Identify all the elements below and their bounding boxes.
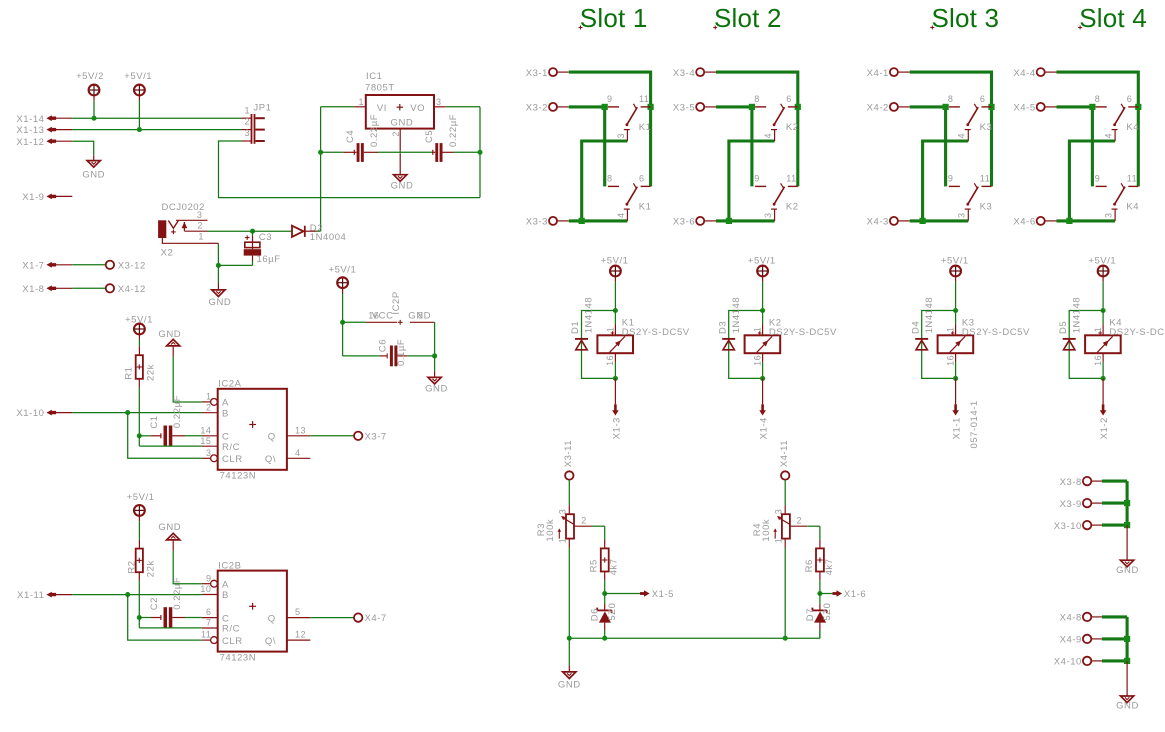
svg-text:6: 6 <box>206 607 212 617</box>
wire side bus <box>1126 481 1129 525</box>
svg-text:R/C: R/C <box>222 442 240 453</box>
svg-text:1: 1 <box>358 97 364 107</box>
svg-text:Slot 3: Slot 3 <box>932 3 1000 33</box>
diode D4 1N4148 <box>915 338 928 340</box>
ground GND (IC2B) symbol <box>167 533 180 540</box>
svg-text:+5V/1: +5V/1 <box>124 71 152 82</box>
svg-text:4: 4 <box>957 133 967 139</box>
zener diode D6 5Z0 <box>604 594 606 605</box>
svg-text:C1: C1 <box>149 415 160 428</box>
svg-text:X1-12: X1-12 <box>16 137 44 148</box>
svg-text:6: 6 <box>786 94 792 104</box>
node X3-12 <box>106 261 114 269</box>
svg-text:GND: GND <box>391 180 414 191</box>
relay contact K3 <box>949 106 960 108</box>
svg-text:X4-9: X4-9 <box>1060 635 1082 646</box>
svg-text:GND: GND <box>209 297 232 308</box>
relay contact K4 <box>1096 185 1107 187</box>
svg-text:X3-11: X3-11 <box>563 440 574 467</box>
capacitor C6 0.1uF <box>380 355 387 357</box>
svg-text:X1-10: X1-10 <box>16 408 44 419</box>
svg-text:C4: C4 <box>345 130 356 143</box>
junction C6/GND <box>432 353 437 358</box>
ground GND (side) <box>1121 560 1134 567</box>
svg-text:VI: VI <box>377 103 387 114</box>
svg-text:3: 3 <box>436 97 442 107</box>
svg-text:3: 3 <box>1104 212 1114 218</box>
diode D2 1N4004 <box>292 226 303 237</box>
wire VCC down to C6 <box>342 322 344 356</box>
wire R3 pin1 down <box>568 539 570 548</box>
svg-text:X3-9: X3-9 <box>1060 499 1082 510</box>
junction <box>1124 636 1130 642</box>
svg-text:X1-6: X1-6 <box>844 589 866 600</box>
IC2B pin Q stub <box>287 617 310 619</box>
svg-text:9: 9 <box>1095 174 1101 184</box>
wire C4 to C5 <box>364 151 378 153</box>
svg-text:Slot 4: Slot 4 <box>1079 3 1147 33</box>
junction R2/C2/RC <box>137 615 142 620</box>
IC2P pin 8 GND <box>410 321 435 323</box>
wire X1-7 to X3-12 <box>72 264 105 266</box>
svg-text:8: 8 <box>418 311 424 321</box>
junction X1-13 / +5V/1 <box>137 127 142 132</box>
junction bus/R4 <box>783 636 788 641</box>
svg-text:14: 14 <box>200 425 211 435</box>
IC2P pin 16 VCC <box>343 321 367 323</box>
relay contact K4 <box>1096 106 1107 108</box>
svg-text:X4-2: X4-2 <box>867 103 889 114</box>
svg-text:B: B <box>222 590 229 601</box>
wire X4-10 <box>1102 659 1127 662</box>
junction <box>943 104 949 110</box>
node X4-12 <box>106 284 114 292</box>
svg-text:0.22µF: 0.22µF <box>172 395 183 428</box>
junction <box>1066 218 1072 224</box>
IC2A pin CLR bubble <box>211 455 218 462</box>
wire X4-8 <box>1102 615 1127 618</box>
svg-text:K2: K2 <box>786 202 799 213</box>
svg-text:3: 3 <box>616 133 626 139</box>
svg-text:+5V/1: +5V/1 <box>328 264 356 275</box>
junction <box>795 104 801 110</box>
node X4-7 <box>354 613 362 621</box>
svg-text:K1: K1 <box>639 122 652 133</box>
ground GND (IC2A) symbol <box>167 339 180 346</box>
wire RC link (IC2B) <box>138 618 140 628</box>
svg-text:DS2Y-S-DC5V: DS2Y-S-DC5V <box>962 327 1030 338</box>
svg-text:GND: GND <box>1116 701 1139 712</box>
junction <box>1124 500 1130 506</box>
wire +5V down <box>762 276 764 282</box>
svg-text:X1-3: X1-3 <box>611 417 622 439</box>
svg-text:GND: GND <box>158 522 181 533</box>
svg-text:+5V/1: +5V/1 <box>127 492 155 503</box>
capacitor C5 <box>432 150 434 155</box>
svg-text:4k7: 4k7 <box>824 558 835 575</box>
svg-text:15: 15 <box>200 436 211 446</box>
junction <box>726 218 732 224</box>
wire side bus <box>1126 617 1129 661</box>
svg-text:IC1: IC1 <box>366 71 382 82</box>
IC2B pin CLR bubble <box>211 637 218 644</box>
supply +5V/1 symbol (K1) <box>610 266 621 277</box>
relay coil K2 pin 16 <box>762 353 764 362</box>
junction <box>1089 104 1095 110</box>
capacitor C2 0.22uF <box>139 617 150 619</box>
svg-text:1: 1 <box>244 105 250 115</box>
wire IC1 pin 2 to GND <box>399 129 401 151</box>
svg-text:2: 2 <box>581 516 587 526</box>
svg-text:22k: 22k <box>146 364 157 381</box>
wire contact out top <box>582 141 628 221</box>
wire +5V down <box>1102 276 1104 282</box>
diode D3 1N4148 <box>722 338 735 340</box>
svg-text:CLR: CLR <box>222 636 243 647</box>
svg-text:1N4148: 1N4148 <box>1071 297 1082 334</box>
node X3-7 <box>354 432 362 440</box>
relay coil K2 box <box>745 335 781 353</box>
net flag X1-3 <box>614 378 616 404</box>
svg-text:X3-8: X3-8 <box>1060 477 1082 488</box>
svg-text:0.22µF: 0.22µF <box>369 114 380 147</box>
junction <box>579 218 585 224</box>
diode D1 1N4148 <box>575 338 588 340</box>
svg-text:11: 11 <box>1127 174 1137 184</box>
svg-text:D3: D3 <box>717 321 728 334</box>
junction <box>920 218 926 224</box>
svg-text:1: 1 <box>946 327 956 333</box>
wire X4-9 <box>1102 637 1127 640</box>
wire X1-13 to JP1 pin 2 <box>72 129 241 131</box>
wire R4 wiper to R6 <box>790 525 807 527</box>
junction coil bottom <box>953 376 958 381</box>
IC2B pin Q\ stub <box>287 639 310 641</box>
wire X3-9 <box>1102 502 1127 505</box>
supply +5V/1 symbol (K4) <box>1098 266 1109 277</box>
svg-text:12: 12 <box>295 630 306 640</box>
resistor R5 4k7 <box>601 548 609 571</box>
wire X3-1 bus <box>569 72 651 186</box>
wire junction to GND <box>217 265 219 283</box>
ground GND (bus) <box>563 672 576 679</box>
svg-text:X4-7: X4-7 <box>365 613 387 624</box>
svg-text:16: 16 <box>605 355 615 366</box>
svg-text:B: B <box>222 408 229 419</box>
svg-text:D7: D7 <box>805 608 816 621</box>
svg-text:X1-11: X1-11 <box>17 590 44 601</box>
svg-text:Slot 2: Slot 2 <box>714 3 782 33</box>
relay coil K4 pin 16 <box>1102 353 1104 362</box>
wire X3-10 <box>1102 524 1127 527</box>
wire bottom bus <box>569 637 820 639</box>
svg-text:22k: 22k <box>145 560 156 577</box>
IC2A pin C <box>202 435 218 437</box>
wire contact out top <box>729 141 775 221</box>
svg-text:X1-2: X1-2 <box>1099 417 1110 439</box>
svg-text:X1-1: X1-1 <box>952 417 963 439</box>
wire C5 bus right <box>443 151 454 153</box>
svg-text:K4: K4 <box>1126 122 1139 133</box>
junction VI rail / C4 bus <box>318 150 323 155</box>
svg-text:100k: 100k <box>761 519 772 542</box>
svg-text:9: 9 <box>607 94 613 104</box>
wire X4-3 bus <box>910 219 969 222</box>
svg-text:X4-10: X4-10 <box>1054 657 1082 668</box>
net flag X1-2 <box>1102 378 1104 404</box>
wire R5 bottom <box>604 572 606 581</box>
svg-text:X4-11: X4-11 <box>779 440 790 467</box>
svg-text:3: 3 <box>197 210 203 220</box>
net flag X1-1 <box>955 378 957 404</box>
svg-text:C6: C6 <box>377 339 388 352</box>
svg-text:X1-14: X1-14 <box>16 114 44 125</box>
svg-text:16: 16 <box>945 355 955 366</box>
IC2A pin A bubble <box>211 399 218 406</box>
svg-text:X3-6: X3-6 <box>673 217 695 228</box>
junction X1-14 / +5V/2 <box>91 116 96 121</box>
wire X3-4 bus <box>716 72 798 186</box>
svg-text:X3-3: X3-3 <box>526 217 548 228</box>
supply +5V/2 symbol <box>89 85 100 96</box>
wire X2 pin 2 to C3/D2 <box>208 230 253 232</box>
svg-text:K3: K3 <box>980 202 993 213</box>
junction coil top <box>953 308 958 313</box>
svg-text:Q: Q <box>268 613 276 624</box>
wire +5V down <box>614 276 616 282</box>
wire R4 pin1 down <box>784 539 786 548</box>
svg-text:0.1µF: 0.1µF <box>396 339 407 366</box>
svg-text:D5: D5 <box>1058 321 1069 334</box>
wire contact out top <box>1069 141 1115 221</box>
junction <box>1124 522 1130 528</box>
diode D5 1N4148 <box>1063 338 1076 340</box>
net flag X1-5 <box>605 593 640 595</box>
svg-text:C3: C3 <box>259 232 272 243</box>
svg-text:C5: C5 <box>424 130 435 143</box>
svg-text:1: 1 <box>1093 327 1103 333</box>
wire X4-1 bus <box>910 72 992 186</box>
IC2A pin Q\ stub <box>287 457 310 459</box>
junction IC2P VCC <box>340 320 345 325</box>
svg-text:X3-1: X3-1 <box>526 68 548 79</box>
svg-text:GND: GND <box>1116 565 1139 576</box>
relay coil K3 box <box>938 335 974 353</box>
svg-text:IC2B: IC2B <box>218 560 241 571</box>
junction C3 bottom <box>216 263 221 268</box>
IC2A pin B <box>202 412 218 414</box>
junction bus/D6 <box>602 636 607 641</box>
wire diode loop <box>1069 311 1103 379</box>
ground GND (X2) <box>212 290 225 297</box>
svg-text:11: 11 <box>980 174 990 184</box>
svg-text:5: 5 <box>295 607 301 617</box>
junction X1-11/CLR <box>125 592 130 597</box>
svg-text:2: 2 <box>206 402 212 412</box>
relay coil K1 pin 16 <box>614 353 616 362</box>
wire JP1 pin 3 to VO rail <box>242 140 252 142</box>
junction X1-6 <box>817 591 822 596</box>
IC2B pin R/C <box>202 627 218 629</box>
wire X4-5 bus <box>1057 107 1093 186</box>
relay coil K1 pin 1 <box>614 311 616 325</box>
junction X1-5 <box>602 591 607 596</box>
wire X3-3 bus <box>569 219 628 222</box>
wire contact out top <box>923 141 969 221</box>
svg-text:11: 11 <box>201 630 211 640</box>
svg-text:4: 4 <box>763 133 773 139</box>
junction coil bottom <box>613 376 618 381</box>
wire X1-12 to GND <box>72 141 93 155</box>
IC2B wire Q to X4-7 <box>310 617 354 619</box>
svg-text:6: 6 <box>639 174 645 184</box>
svg-text:1N4148: 1N4148 <box>731 297 742 334</box>
svg-text:X3-2: X3-2 <box>526 103 548 114</box>
svg-text:X4-4: X4-4 <box>1013 68 1035 79</box>
junction bus/R3 <box>567 636 572 641</box>
svg-text:7805T: 7805T <box>365 83 395 94</box>
svg-text:C2: C2 <box>149 597 160 610</box>
svg-text:R6: R6 <box>804 559 815 572</box>
IC1 box <box>366 95 434 129</box>
svg-text:6: 6 <box>980 94 986 104</box>
pin X2-2 <box>184 230 207 232</box>
resistor R2 22k <box>136 549 143 573</box>
svg-text:8: 8 <box>754 94 760 104</box>
svg-text:JP1: JP1 <box>253 102 271 113</box>
svg-text:1: 1 <box>774 538 784 544</box>
wire R3 wiper to R5 <box>574 525 592 527</box>
svg-text:3: 3 <box>206 448 212 458</box>
svg-text:A: A <box>222 579 229 590</box>
svg-text:X1-13: X1-13 <box>16 125 44 136</box>
svg-text:D6: D6 <box>590 608 601 621</box>
svg-text:X4-6: X4-6 <box>1013 217 1035 228</box>
svg-text:1: 1 <box>198 232 204 242</box>
svg-text:X3-12: X3-12 <box>118 260 146 271</box>
wire X3-8 <box>1102 480 1127 483</box>
capacitor C1 0.22uF <box>139 435 150 437</box>
zener diode D7 5Z0 <box>819 594 821 605</box>
wire to GND <box>1126 661 1128 696</box>
wire bus to GND <box>568 638 570 665</box>
relay coil K3 pin 1 <box>955 311 957 325</box>
svg-text:X2: X2 <box>161 247 174 258</box>
relay contact K2 <box>755 185 766 187</box>
svg-text:CLR: CLR <box>222 454 243 465</box>
svg-text:100k: 100k <box>545 519 556 542</box>
svg-text:8: 8 <box>607 174 613 184</box>
pin X2-1 <box>162 238 207 243</box>
svg-text:X1-5: X1-5 <box>652 589 674 600</box>
svg-text:X3-5: X3-5 <box>673 103 695 114</box>
relay coil K3 pin 16 <box>955 353 957 362</box>
svg-text:0.22µF: 0.22µF <box>448 114 459 147</box>
wire D2 cathode to VI rail <box>305 230 317 232</box>
svg-text:2: 2 <box>244 117 250 127</box>
relay coil K2 pin 1 <box>762 311 764 325</box>
svg-text:IC2P: IC2P <box>391 291 402 314</box>
relay contact K1 <box>608 106 619 108</box>
wire X4-11 to R4 <box>784 480 786 505</box>
junction C3 top <box>250 229 255 234</box>
svg-text:DS2Y-S-DC5V: DS2Y-S-DC5V <box>1109 327 1165 338</box>
svg-text:2: 2 <box>197 221 203 231</box>
svg-text:10: 10 <box>200 584 211 594</box>
relay coil K4 pin 1 <box>1102 311 1104 325</box>
wire X4-2 bus <box>910 107 946 186</box>
svg-text:Slot 1: Slot 1 <box>580 3 648 33</box>
capacitor C4 <box>353 150 355 155</box>
svg-text:X4-8: X4-8 <box>1060 613 1082 624</box>
wire VI rail <box>320 107 322 231</box>
wire R6 bottom <box>819 572 821 581</box>
junction coil bottom <box>760 376 765 381</box>
svg-text:13: 13 <box>295 425 306 435</box>
junction <box>749 104 755 110</box>
wire X4-6 bus <box>1057 219 1116 222</box>
wire GND to pin 9 <box>173 551 202 584</box>
svg-text:GND: GND <box>158 329 181 340</box>
svg-text:VO: VO <box>410 103 425 114</box>
wire +5V to R1 <box>138 334 140 340</box>
junction <box>602 104 608 110</box>
wire X1-14 to JP1 pin 1 <box>72 117 241 119</box>
svg-text:11: 11 <box>639 94 649 104</box>
wire C4 bus left <box>321 151 344 153</box>
svg-text:16: 16 <box>1093 355 1103 366</box>
wire R1 bottom <box>138 379 140 388</box>
svg-text:GND: GND <box>558 680 581 691</box>
wire diode loop <box>922 311 956 379</box>
svg-text:X4-5: X4-5 <box>1013 103 1035 114</box>
junction coil top <box>760 308 765 313</box>
wire RC link <box>138 436 140 446</box>
ground GND (X1-12) <box>87 161 100 168</box>
svg-text:9: 9 <box>206 573 212 583</box>
wire X1-11 to pin B <box>72 594 202 596</box>
resistor R6 4k7 <box>816 548 824 571</box>
ground GND (IC1) <box>394 175 407 182</box>
svg-text:X1-8: X1-8 <box>22 284 44 295</box>
supply +5V/1 symbol (K2) <box>757 266 768 277</box>
svg-text:1: 1 <box>558 538 568 544</box>
junction X1-10/CLR <box>125 410 130 415</box>
junction R1/C1/RC <box>137 433 142 438</box>
svg-text:D4: D4 <box>910 321 921 334</box>
svg-text:4k7: 4k7 <box>609 558 620 575</box>
resistor R1 22k <box>136 355 143 379</box>
svg-text:IC2A: IC2A <box>218 379 241 390</box>
ground GND (IC2P) <box>428 377 441 384</box>
IC2B pin C <box>202 617 218 619</box>
wire X3-2 bus <box>569 107 605 186</box>
pin X2-3 <box>176 219 208 221</box>
relay contact K3 <box>949 185 960 187</box>
svg-text:8: 8 <box>948 94 954 104</box>
svg-text:8: 8 <box>1095 94 1101 104</box>
svg-text:X1-7: X1-7 <box>22 260 44 271</box>
wire +5V/1 stem <box>138 95 140 101</box>
wire diode loop <box>582 311 616 379</box>
net flag X1-6 <box>820 593 833 595</box>
svg-text:X4-3: X4-3 <box>867 217 889 228</box>
svg-text:4: 4 <box>1104 133 1114 139</box>
wire R2 bottom <box>138 572 140 580</box>
svg-text:K4: K4 <box>1126 202 1139 213</box>
wire X3-11 to R3 <box>568 480 570 505</box>
svg-text:DS2Y-S-DC5V: DS2Y-S-DC5V <box>769 327 837 338</box>
